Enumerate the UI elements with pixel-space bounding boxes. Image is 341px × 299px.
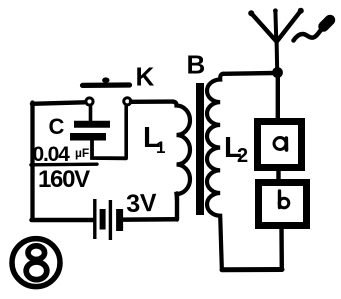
wire bottom left to battery (32, 218, 94, 223)
svg-text:160V: 160V (38, 166, 90, 193)
figure number 8 (12, 239, 60, 287)
radiated wave arrow (294, 20, 331, 41)
wire L1 riser (175, 194, 179, 220)
label L2 (224, 132, 248, 167)
wire block b to bottom (279, 228, 284, 268)
svg-text:B: B (187, 50, 206, 80)
svg-text:C: C (49, 114, 65, 139)
svg-text:K: K (136, 62, 155, 92)
wire key left terminal to capacitor (89, 106, 93, 122)
node antenna junction (272, 67, 283, 78)
key K switch lever (83, 77, 130, 85)
wire top-left rail (32, 102, 85, 104)
value 0.04 uF (31, 143, 97, 166)
wire capacitor bottom to junction (92, 141, 126, 159)
wire key right terminal to L1 top (131, 99, 173, 104)
wire junction to block a (276, 77, 280, 119)
svg-text:3V: 3V (126, 189, 158, 218)
key terminal left (86, 98, 93, 105)
key terminal right (124, 98, 131, 105)
inductor L2 secondary coil (207, 74, 223, 268)
svg-text:µF: µF (75, 146, 89, 160)
wire right circuit bottom (222, 267, 282, 272)
inductor L1 primary coil (173, 102, 190, 200)
antenna (252, 11, 301, 71)
wire right circuit top (223, 71, 274, 76)
wire battery to L1 riser (124, 217, 177, 222)
battery BT1 3V (95, 199, 120, 240)
wire key right terminal down to junction (124, 107, 128, 159)
label L1 (143, 122, 165, 157)
wire block a to block b (276, 169, 280, 181)
block b (259, 183, 307, 226)
wire left rail (30, 103, 34, 220)
block a (258, 122, 302, 168)
svg-text:1: 1 (156, 138, 165, 157)
svg-text:2: 2 (237, 145, 248, 167)
transformer core B (196, 83, 204, 215)
svg-text:0.04: 0.04 (33, 143, 71, 166)
capacitor C plates (70, 124, 110, 137)
